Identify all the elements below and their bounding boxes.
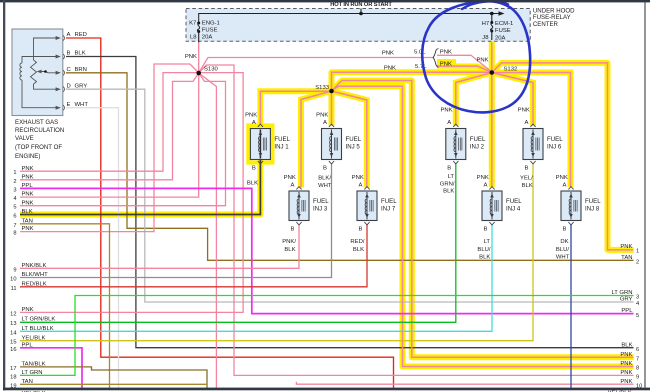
svg-text:5: 5 xyxy=(13,205,16,211)
svg-text:ENG-1: ENG-1 xyxy=(202,21,220,27)
svg-text:GRY: GRY xyxy=(620,297,633,303)
svg-text:FUEL: FUEL xyxy=(506,198,522,205)
wire S130 branch to connector pin 4 PNK xyxy=(20,73,199,197)
svg-text:PNK: PNK xyxy=(440,108,452,114)
svg-text:B: B xyxy=(447,165,451,171)
splice S133 xyxy=(329,89,334,94)
svg-text:HOT IN RUN OR START: HOT IN RUN OR START xyxy=(330,2,392,8)
highlight S133 branch to PNK 8 wire xyxy=(332,86,634,366)
svg-text:A: A xyxy=(67,32,71,38)
fuel injector 2 (FUEL INJ 2) xyxy=(446,129,466,160)
svg-text:PNK: PNK xyxy=(620,361,632,367)
bus tick to label xyxy=(360,9,362,14)
svg-text:2: 2 xyxy=(13,179,16,185)
svg-text:PNK: PNK xyxy=(384,66,396,72)
svg-text:3: 3 xyxy=(13,187,16,193)
svg-text:PNK: PNK xyxy=(22,307,34,313)
wire FUEL INJ 3 B PNK/BLK to connector pin 9 xyxy=(20,224,299,268)
svg-text:INJ 1: INJ 1 xyxy=(274,143,289,150)
fuel injector 8 (FUEL INJ 8) xyxy=(561,191,581,221)
highlight splice S132 to S133 bus xyxy=(332,72,492,91)
wire S130 branch exiting page bottom xyxy=(199,73,217,389)
svg-text:INJ 6: INJ 6 xyxy=(547,143,562,150)
svg-text:14: 14 xyxy=(10,330,16,336)
wire right PNK 10 xyxy=(296,382,633,384)
svg-text:9: 9 xyxy=(13,267,16,273)
svg-text:PPL: PPL xyxy=(621,308,633,314)
svg-text:PNK: PNK xyxy=(284,175,296,181)
svg-text:PNK: PNK xyxy=(316,112,328,118)
svg-text:A: A xyxy=(524,120,528,126)
highlight S133 branch to FUEL INJ 1 feed xyxy=(260,91,331,124)
wire S133 to right edge PNK 7 xyxy=(332,81,634,358)
highlight S132 branch to FUEL INJ 4 feed xyxy=(489,73,495,188)
svg-text:PNK: PNK xyxy=(22,174,34,180)
highlight S132 branch to FUEL INJ 8 feed xyxy=(492,73,571,188)
wire connector pin 18 LT GRN to right LT GRN 3 xyxy=(20,296,634,376)
wire S132 to FUEL INJ 6 PNK xyxy=(492,73,533,126)
svg-text:PNK/BLK: PNK/BLK xyxy=(22,263,47,269)
svg-text:4: 4 xyxy=(13,196,16,202)
svg-text:GRN/: GRN/ xyxy=(440,181,455,187)
wire S130 branch to connector pin 12 PNK xyxy=(20,73,243,313)
svg-text:BRN: BRN xyxy=(75,67,87,73)
svg-text:LT GRN: LT GRN xyxy=(611,290,632,296)
svg-text:BLK: BLK xyxy=(443,189,454,195)
svg-text:FUEL: FUEL xyxy=(381,198,397,205)
wire S132 to FUEL INJ 8 PNK xyxy=(492,73,571,188)
svg-text:16: 16 xyxy=(10,347,16,353)
page border bars xyxy=(0,0,650,2)
svg-text:PNK: PNK xyxy=(22,226,34,232)
highlight S133 branch to FUEL INJ 3 feed xyxy=(301,91,332,188)
svg-text:BLK/: BLK/ xyxy=(318,176,331,182)
svg-text:B: B xyxy=(290,226,294,232)
wire S133 to FUEL INJ 7 PNK xyxy=(332,91,367,188)
svg-text:PPL: PPL xyxy=(22,342,34,348)
wire connector pin 16 PPL xyxy=(20,348,82,389)
svg-text:FUEL: FUEL xyxy=(585,198,601,205)
wire 5.0L PNK variant xyxy=(437,55,492,72)
fuse ECM-1 element xyxy=(491,14,493,23)
svg-text:RED/BLK: RED/BLK xyxy=(22,281,47,287)
svg-text:4: 4 xyxy=(636,301,639,307)
highlight S133 branch to FUEL INJ 5 feed xyxy=(329,91,335,126)
wire FUEL INJ 5 B BLK/WHT to connector pin 10 xyxy=(20,163,332,278)
under hood fuse-relay center band xyxy=(186,9,530,42)
svg-text:BLK: BLK xyxy=(247,180,258,186)
splice S130 xyxy=(196,71,201,76)
svg-text:B: B xyxy=(358,226,362,232)
svg-text:5: 5 xyxy=(636,313,639,319)
brace 5.0L/5.7L xyxy=(433,49,438,68)
svg-text:1: 1 xyxy=(636,249,639,255)
fuel injector 4 (FUEL INJ 4) xyxy=(482,191,502,221)
svg-text:RED/: RED/ xyxy=(350,239,364,245)
wire FUEL INJ 4 B LT BLU/BLK to connector pin 14 xyxy=(20,224,492,331)
svg-text:PNK: PNK xyxy=(620,370,632,376)
svg-text:E: E xyxy=(67,102,71,108)
svg-text:PNK: PNK xyxy=(22,200,34,206)
svg-text:LT: LT xyxy=(484,239,491,245)
svg-text:WHT: WHT xyxy=(75,102,89,108)
svg-text:5.0L: 5.0L xyxy=(414,49,426,55)
wire EGR pin A RED xyxy=(66,38,394,389)
svg-text:1: 1 xyxy=(13,170,16,176)
svg-text:PNK: PNK xyxy=(22,192,34,198)
bus junction dot at ECM fuse xyxy=(490,12,494,16)
highlight S132 branch to FUEL INJ 6 feed xyxy=(492,73,533,126)
wire connector pin 3 PPL to right PPL 5 xyxy=(20,188,634,313)
bus arrow xyxy=(499,11,505,16)
svg-text:PNK: PNK xyxy=(620,352,632,358)
svg-text:BLK: BLK xyxy=(353,247,364,253)
wire S130 branch to right PNK 9 xyxy=(199,65,634,375)
svg-text:PNK: PNK xyxy=(620,244,632,250)
svg-text:A: A xyxy=(323,120,327,126)
svg-text:L8: L8 xyxy=(190,35,197,41)
wire S133 to right edge PNK 8 xyxy=(332,86,634,366)
wire FUEL INJ 7 B RED/BLK to connector pin 11 xyxy=(20,224,367,287)
svg-text:H7: H7 xyxy=(482,21,490,27)
wire connector pin 19 TAN xyxy=(20,383,207,385)
svg-text:15: 15 xyxy=(10,340,16,346)
svg-text:PNK: PNK xyxy=(440,50,452,56)
svg-text:BLK: BLK xyxy=(22,209,33,215)
svg-text:PNK: PNK xyxy=(382,50,394,56)
svg-text:CENTER: CENTER xyxy=(533,21,559,28)
wire FUEL INJ 1 B BLK to connector pin 6 xyxy=(20,160,260,215)
svg-text:YEL/BLK: YEL/BLK xyxy=(22,335,46,341)
svg-text:BLK: BLK xyxy=(479,255,490,261)
splice S132 xyxy=(490,70,495,75)
svg-text:BLU/: BLU/ xyxy=(556,247,569,253)
highlight S133 branch to PNK 7 wire xyxy=(332,81,634,358)
wire connector pin 17 TAN/BLK xyxy=(20,367,207,389)
svg-text:2: 2 xyxy=(636,260,639,266)
highlight S133 branch to FUEL INJ 7 feed xyxy=(332,91,367,188)
svg-text:BLK: BLK xyxy=(621,342,632,348)
svg-text:C: C xyxy=(67,67,72,73)
svg-text:B: B xyxy=(562,226,566,232)
fuel injector 5 (FUEL INJ 5) xyxy=(322,129,342,160)
svg-text:YEL/: YEL/ xyxy=(520,176,533,182)
wire EGR pin E WHT xyxy=(66,108,119,389)
hand-drawn pen circle around ECM-1 fuse xyxy=(422,1,530,112)
svg-text:BLK: BLK xyxy=(284,247,295,253)
wire EGR pin B BLK to right BLK 6 xyxy=(66,57,634,348)
wire S130 branch to connector pin 1 PNK xyxy=(20,73,199,172)
svg-text:J8: J8 xyxy=(482,35,489,41)
svg-text:PNK: PNK xyxy=(477,175,489,181)
wire S133 to FUEL INJ 5 PNK xyxy=(331,91,333,126)
svg-text:INJ 5: INJ 5 xyxy=(346,143,361,150)
svg-text:FUEL: FUEL xyxy=(313,198,329,205)
svg-text:WHT: WHT xyxy=(556,255,570,261)
svg-text:FUEL: FUEL xyxy=(274,136,290,143)
hot in run or start bus line xyxy=(199,14,503,24)
wire S132 to FUEL INJ 4 PNK xyxy=(491,73,493,188)
svg-text:INJ 2: INJ 2 xyxy=(470,143,485,150)
svg-text:PNK: PNK xyxy=(440,61,452,67)
svg-text:PNK: PNK xyxy=(185,54,197,60)
svg-text:FUEL: FUEL xyxy=(547,136,563,143)
highlight ECM-1 fuse output wire xyxy=(489,40,495,73)
svg-text:INJ 7: INJ 7 xyxy=(381,205,396,212)
svg-text:9: 9 xyxy=(636,375,639,381)
svg-text:ENGINE): ENGINE) xyxy=(15,153,40,160)
svg-text:20A: 20A xyxy=(495,36,506,42)
svg-text:BLK: BLK xyxy=(75,51,86,57)
svg-text:RED: RED xyxy=(75,32,87,38)
svg-text:20A: 20A xyxy=(202,35,213,41)
wire 5.7L PNK variant xyxy=(437,66,492,72)
svg-text:DK: DK xyxy=(560,239,568,245)
svg-text:18: 18 xyxy=(10,374,16,380)
svg-text:17: 17 xyxy=(10,366,16,372)
fuse ENG-1 element xyxy=(197,22,200,25)
wire S130 branch to connector pin 5 PNK xyxy=(20,73,226,206)
wire FUEL INJ 6 B YEL/BLK to connector pin 15 xyxy=(20,163,533,341)
svg-text:A: A xyxy=(252,120,256,126)
svg-text:A: A xyxy=(483,182,487,188)
wire S133 to FUEL INJ 3 PNK xyxy=(301,91,332,188)
svg-text:FUSE: FUSE xyxy=(495,28,511,34)
svg-text:GRY: GRY xyxy=(75,83,88,89)
svg-text:12: 12 xyxy=(10,311,16,317)
svg-text:7: 7 xyxy=(636,356,639,362)
svg-text:WHT: WHT xyxy=(318,183,332,189)
svg-text:BLK/WHT: BLK/WHT xyxy=(22,272,49,278)
svg-text:A: A xyxy=(358,182,362,188)
highlight 5.7L PNK wire xyxy=(437,66,492,72)
fuel injector 3 (FUEL INJ 3) xyxy=(289,191,309,221)
svg-text:B: B xyxy=(483,226,487,232)
wire S130 to engine fuse PNK xyxy=(198,42,200,73)
svg-text:TAN: TAN xyxy=(22,379,33,385)
svg-text:8: 8 xyxy=(13,231,16,237)
wire S132 to FUEL INJ 2 PNK xyxy=(456,73,492,126)
svg-text:LT BLU/BLK: LT BLU/BLK xyxy=(22,326,54,332)
fuel injector 1 (FUEL INJ 1) xyxy=(250,129,270,160)
wire S130 branch to connector pin 2 PNK xyxy=(20,73,199,180)
svg-text:B: B xyxy=(67,51,71,57)
svg-text:5.7L: 5.7L xyxy=(415,64,427,70)
highlight 5.7L PNK label xyxy=(437,59,456,67)
wire connector pin 7 TAN xyxy=(20,224,110,389)
svg-text:FUEL: FUEL xyxy=(346,136,362,143)
svg-text:11: 11 xyxy=(11,286,17,292)
wire EGR pin D GRY to right GRY 4 xyxy=(66,89,634,302)
svg-text:PNK: PNK xyxy=(556,175,568,181)
svg-text:S130: S130 xyxy=(204,67,218,73)
wire S130 to 5.0L/5.7L splice PNK xyxy=(199,58,434,74)
EGR valve (exhaust gas recirculation valve) xyxy=(12,29,63,116)
svg-text:S132: S132 xyxy=(504,66,518,72)
svg-text:ECM-1: ECM-1 xyxy=(495,21,513,27)
fuel injector 6 (FUEL INJ 6) xyxy=(523,129,543,160)
svg-text:LT GRN/BLK: LT GRN/BLK xyxy=(22,316,56,322)
svg-text:LT GRN: LT GRN xyxy=(22,370,43,376)
svg-text:A: A xyxy=(562,182,566,188)
wire S132 to S133 PNK xyxy=(332,72,492,91)
svg-text:PNK: PNK xyxy=(245,112,257,118)
svg-text:PNK: PNK xyxy=(22,166,34,172)
wire EGR pin C BRN to right TAN 2 xyxy=(66,73,634,260)
svg-text:8: 8 xyxy=(636,366,639,372)
wire S132 to right edge PNK 1 xyxy=(492,63,634,250)
bus junction dot xyxy=(359,12,363,16)
svg-text:A: A xyxy=(290,182,294,188)
svg-text:VALVE: VALVE xyxy=(15,135,34,142)
svg-text:INJ 8: INJ 8 xyxy=(585,205,600,212)
wire S130 branch to connector pin 8 PNK xyxy=(20,64,199,232)
svg-text:K7: K7 xyxy=(189,21,196,27)
svg-text:6: 6 xyxy=(636,347,639,353)
svg-text:A: A xyxy=(447,120,451,126)
svg-text:INJ 3: INJ 3 xyxy=(313,205,328,212)
wire FUEL INJ 2 B LT GRN/BLK to connector pin 13 xyxy=(20,163,456,322)
highlight S132 branch to FUEL INJ 2 feed xyxy=(456,73,492,126)
svg-text:LT: LT xyxy=(448,174,455,180)
highlight S132 branch to right vertical / PNK 1 xyxy=(492,63,634,250)
svg-text:PPL: PPL xyxy=(22,183,34,189)
svg-text:3: 3 xyxy=(636,295,639,301)
wire ECM fuse to S132 PNK xyxy=(491,42,493,72)
svg-text:(TOP FRONT OF: (TOP FRONT OF xyxy=(15,144,62,151)
svg-text:PNK: PNK xyxy=(518,108,530,114)
svg-text:FUSE: FUSE xyxy=(202,27,218,33)
svg-text:EXHAUST GAS: EXHAUST GAS xyxy=(15,119,58,126)
svg-text:7: 7 xyxy=(13,223,16,229)
highlight FUEL INJ 1 box xyxy=(248,126,272,163)
svg-text:B: B xyxy=(323,165,327,171)
svg-text:PNK: PNK xyxy=(352,175,364,181)
fuel injector 7 (FUEL INJ 7) xyxy=(357,191,377,221)
svg-text:RECIRCULATION: RECIRCULATION xyxy=(15,127,64,134)
svg-text:D: D xyxy=(67,83,71,89)
svg-text:B: B xyxy=(524,165,528,171)
svg-text:13: 13 xyxy=(10,321,16,327)
highlight FUEL INJ 1 B wire / BLK wire 6 xyxy=(20,160,260,215)
svg-text:6: 6 xyxy=(13,214,16,220)
svg-text:FUEL: FUEL xyxy=(470,136,486,143)
svg-text:TAN: TAN xyxy=(22,218,33,224)
svg-text:TAN/BLK: TAN/BLK xyxy=(22,362,46,368)
svg-text:BLU/: BLU/ xyxy=(477,247,490,253)
svg-text:BLK: BLK xyxy=(522,183,533,189)
svg-text:TAN: TAN xyxy=(621,255,632,261)
wire FUEL INJ 8 B DK BLU/WHT xyxy=(570,224,572,389)
svg-text:S133: S133 xyxy=(315,85,329,91)
svg-text:PNK: PNK xyxy=(476,58,488,64)
svg-text:10: 10 xyxy=(10,277,16,283)
svg-text:PNK/: PNK/ xyxy=(282,239,296,245)
svg-text:INJ 4: INJ 4 xyxy=(506,205,521,212)
wire S133 to FUEL INJ 1 PNK xyxy=(260,91,331,124)
svg-text:B: B xyxy=(252,165,256,171)
svg-text:PNK: PNK xyxy=(620,379,632,385)
